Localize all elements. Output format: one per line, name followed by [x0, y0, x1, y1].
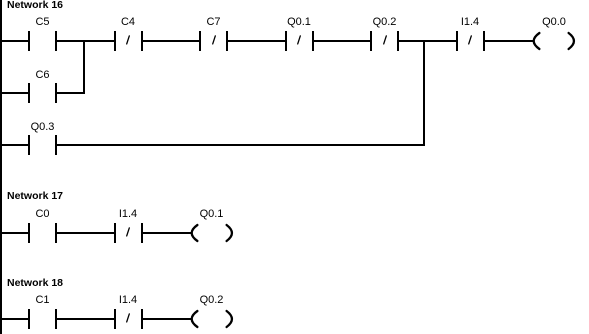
wire Q0.1 contact to Q0.2 contact	[314, 40, 371, 42]
wire rail to C5	[2, 40, 28, 42]
contact Q0.3	[0, 0, 1, 1]
network 18 label	[7, 278, 63, 289]
network 17 label	[7, 191, 63, 202]
contact I1.4 (NC, network 17)	[0, 0, 1, 1]
contact I1.4 (NC, network 16)	[0, 0, 1, 1]
wire I1.4 to coil Q0.2	[143, 318, 193, 320]
wire C0 to I1.4	[57, 232, 114, 234]
wire Q0.2 contact to I1.4	[399, 40, 456, 42]
wire rail to C0	[2, 232, 28, 234]
wire I1.4 to coil Q0.0	[485, 40, 535, 42]
contact C1	[0, 0, 1, 1]
coil Q0.2	[0, 0, 1, 1]
contact I1.4 (NC, network 18)	[0, 0, 1, 1]
coil Q0.0	[0, 0, 1, 1]
wire Q0.3 contact to branch junction	[57, 144, 425, 146]
wire C5 to C4	[57, 40, 114, 42]
contact C5	[0, 0, 1, 1]
left power rail	[0, 0, 2, 334]
contact Q0.1 (NC contact)	[0, 0, 1, 1]
wire C6 to branch junction	[57, 92, 85, 94]
coil Q0.1	[0, 0, 1, 1]
wire C6 branch riser to main rung	[83, 40, 85, 94]
wire C7 to Q0.1 contact	[228, 40, 285, 42]
contact C7 (NC)	[0, 0, 1, 1]
contact Q0.2 (NC contact)	[0, 0, 1, 1]
wire rail to C6	[2, 92, 28, 94]
wire rail to Q0.3 contact	[2, 144, 28, 146]
wire I1.4 to coil Q0.1	[143, 232, 193, 234]
contact C4 (NC)	[0, 0, 1, 1]
contact C0	[0, 0, 1, 1]
network 16 label	[7, 0, 63, 11]
wire C4 to C7	[143, 40, 200, 42]
wire Q0.3 branch riser to main rung	[423, 40, 425, 146]
wire C1 to I1.4	[57, 318, 114, 320]
contact C6	[0, 0, 1, 1]
wire rail to C1	[2, 318, 28, 320]
